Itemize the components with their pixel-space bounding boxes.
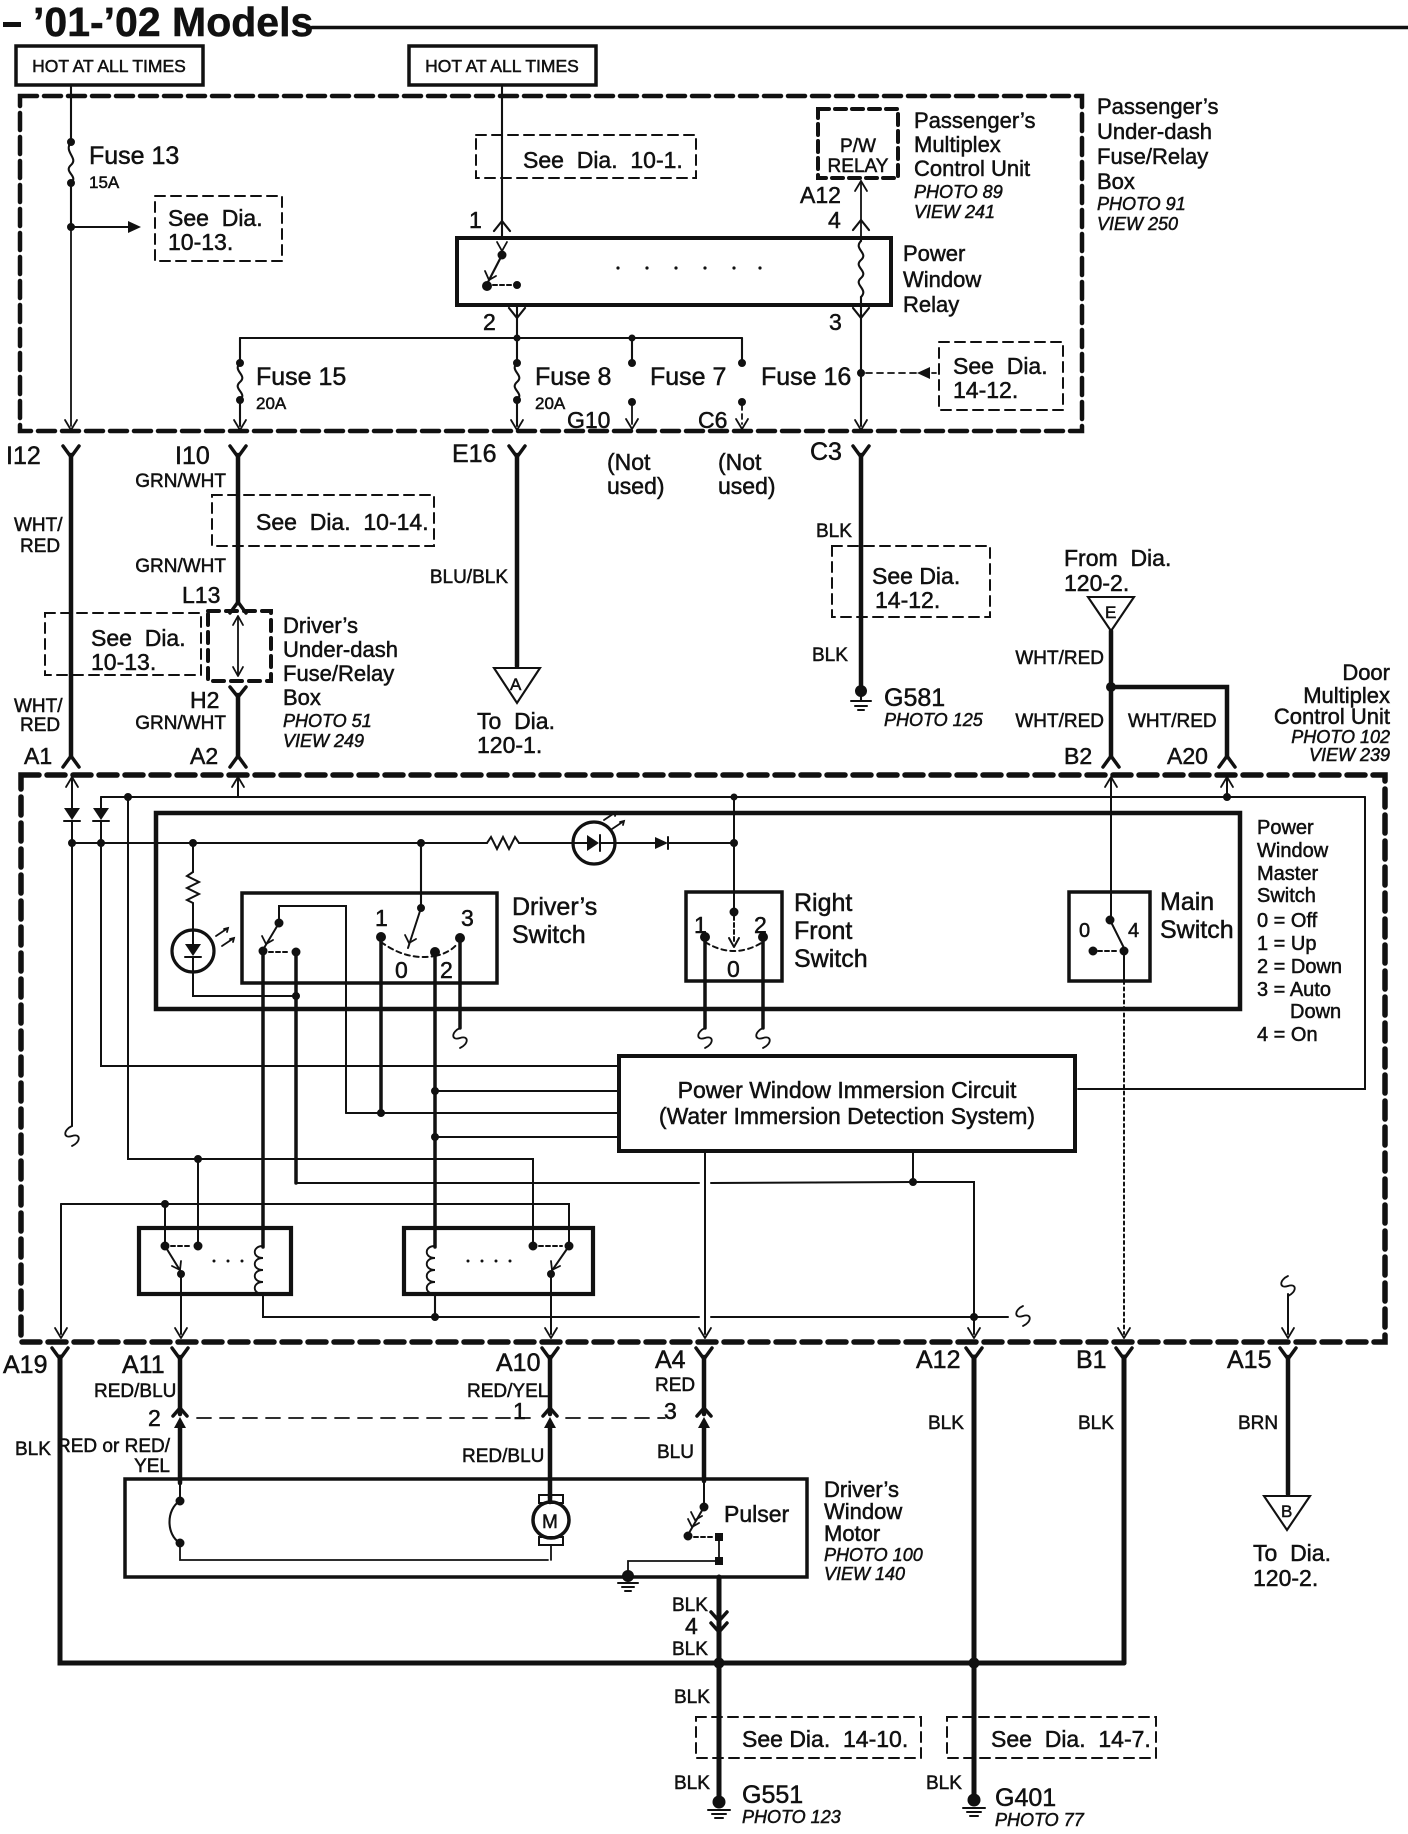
svg-text:Switch: Switch — [1257, 885, 1316, 907]
svg-text:14-12.: 14-12. — [875, 587, 940, 613]
driver's switch arm — [408, 908, 421, 948]
svg-text:Pulser: Pulser — [724, 1501, 790, 1527]
LED2 indicator — [172, 928, 234, 972]
wire relay pin3 down to C3 exit — [860, 305, 862, 426]
circuit breaker — [170, 1497, 549, 1560]
driver's switch box — [242, 893, 497, 983]
label Passenger's Multiplex Control Unit — [914, 108, 1035, 222]
relay contact from pin 1 — [498, 251, 506, 259]
wire break symbol — [65, 1126, 79, 1146]
svg-text:PHOTO 100: PHOTO 100 — [824, 1545, 923, 1565]
node A2 branch — [125, 794, 132, 801]
motor M1 — [533, 1495, 569, 1560]
svg-text:2: 2 — [483, 309, 496, 335]
See Dia. 14-7. box — [947, 1717, 1156, 1758]
wire driver's 3 contact to break — [458, 938, 462, 1028]
wire from HOT box to Fuse 13 — [70, 87, 72, 139]
arrowhead to See Dia 10-13 — [128, 221, 141, 233]
svg-text:BRN: BRN — [1238, 1413, 1278, 1434]
window relay 2 box — [404, 1228, 593, 1294]
right front switch box — [686, 892, 782, 981]
svg-text:M: M — [542, 1512, 558, 1533]
See Dia. 10-13. box (mid) — [45, 613, 201, 675]
wire H2 GRN/WHT to A2 — [236, 695, 241, 757]
label RED or RED/YEL — [57, 1436, 171, 1477]
svg-text:Down: Down — [1290, 1001, 1341, 1023]
driver's switch contacts — [377, 933, 386, 942]
svg-text:1: 1 — [694, 912, 707, 938]
node ground bus A12 — [969, 1658, 979, 1668]
fuse F7 stub — [626, 338, 638, 429]
mechanical link dots — [616, 266, 761, 269]
svg-text:VIEW 140: VIEW 140 — [824, 1564, 905, 1584]
svg-text:3 = Auto: 3 = Auto — [1257, 979, 1331, 1001]
main switch box — [1069, 892, 1150, 981]
svg-text:C3: C3 — [810, 438, 842, 466]
relay2 coil — [427, 1246, 435, 1294]
label Driver's Window Motor — [824, 1477, 923, 1584]
off-page triangle A — [494, 668, 540, 703]
label Driver's Under-dash Fuse/Relay Box — [283, 613, 398, 751]
wire A19 feed down — [60, 1204, 62, 1334]
svg-text:1: 1 — [513, 1398, 526, 1424]
wire A4 to motor box — [702, 1424, 707, 1481]
svg-text:BLK: BLK — [1078, 1413, 1114, 1434]
svg-text:4: 4 — [1128, 920, 1139, 942]
svg-text:WHT/RED: WHT/RED — [1015, 648, 1104, 669]
pin labels right front switch — [694, 912, 767, 982]
svg-text:See Dia.: See Dia. — [91, 625, 186, 651]
See Dia. 14-12. box (top) — [939, 342, 1063, 410]
connector H2 — [230, 687, 246, 697]
dashed selector arc — [381, 942, 435, 957]
relay coil bus — [263, 1294, 1008, 1317]
relay1 link dots — [213, 1260, 244, 1263]
connector 4 inline — [711, 1612, 727, 1632]
wire A19 BLK to ground bus — [60, 1357, 1124, 1663]
svg-text:WHT/: WHT/ — [14, 515, 63, 536]
relay pin2 contact — [514, 282, 521, 289]
HOT AT ALL TIMES box right — [409, 46, 596, 85]
LED supply line — [72, 842, 487, 844]
wire fuse13 node down to I12 exit — [70, 227, 72, 426]
svg-text:Motor: Motor — [824, 1521, 880, 1546]
label (Not used) C6 — [718, 449, 776, 499]
svg-text:See Dia. 14-10.: See Dia. 14-10. — [742, 1726, 908, 1752]
svg-text:I10: I10 — [175, 442, 210, 470]
svg-text:Box: Box — [1097, 169, 1135, 194]
svg-text:BLK: BLK — [928, 1413, 964, 1434]
svg-text:I12: I12 — [6, 442, 41, 470]
svg-text:E16: E16 — [452, 440, 496, 468]
svg-text:RED/BLU: RED/BLU — [94, 1381, 176, 1402]
svg-text:WHT/RED: WHT/RED — [1015, 711, 1104, 732]
resistor R2 vertical — [187, 843, 199, 930]
off-page triangle B — [1264, 1496, 1310, 1530]
label G581 PHOTO 125 — [884, 684, 984, 730]
relay arrow into pin1 contact — [497, 242, 507, 251]
svg-text:Driver’s: Driver’s — [512, 893, 597, 921]
right front switch contacts — [701, 933, 710, 942]
wire to relay1 main contact — [164, 1204, 166, 1246]
label BLK 4 BLK — [672, 1595, 708, 1660]
label Passenger's Under-dash Fuse/Relay Box — [1097, 94, 1218, 234]
label WHT/RED lower — [14, 696, 63, 736]
svg-text:Fuse/Relay: Fuse/Relay — [1097, 144, 1208, 169]
wire G551 BLK — [717, 1663, 722, 1797]
svg-text:PHOTO 77: PHOTO 77 — [995, 1810, 1085, 1830]
svg-text:P/W: P/W — [840, 136, 876, 157]
wire A1 branch down to break — [71, 843, 73, 1126]
svg-text:3: 3 — [664, 1398, 677, 1424]
svg-text:RED: RED — [655, 1375, 695, 1396]
svg-text:GRN/WHT: GRN/WHT — [135, 713, 226, 734]
svg-text:120-2.: 120-2. — [1064, 570, 1129, 596]
svg-text:RED: RED — [20, 536, 60, 557]
svg-text:BLK: BLK — [926, 1773, 962, 1794]
label G551 PHOTO 123 — [742, 1781, 841, 1827]
wire E to B2 WHT/RED — [1109, 631, 1114, 757]
wire main switch down to B1 — [1123, 951, 1125, 981]
wire A4 upper — [702, 1357, 707, 1414]
svg-text:A1: A1 — [24, 743, 52, 769]
svg-text:(Water Immersion Detection Sys: (Water Immersion Detection System) — [659, 1103, 1035, 1129]
svg-text:(Not: (Not — [607, 449, 651, 475]
label immersion circuit — [659, 1077, 1035, 1129]
driver's lock switch arm — [264, 923, 279, 948]
wire A11 upper — [178, 1357, 183, 1414]
label Driver's Switch — [512, 893, 597, 949]
svg-text:C6: C6 — [698, 407, 727, 433]
svg-text:Power Window Immersion Circuit: Power Window Immersion Circuit — [678, 1077, 1017, 1103]
Passenger's under-dash fuse/relay box (dashed) — [20, 96, 1082, 431]
svg-text:Fuse 13: Fuse 13 — [89, 142, 179, 170]
feed line from A2 across top — [101, 796, 1365, 798]
svg-text:PHOTO 125: PHOTO 125 — [884, 710, 984, 730]
svg-text:H2: H2 — [190, 687, 219, 713]
driver's under-dash fuse/relay box (dashed) — [208, 611, 271, 681]
wire A10 upper — [548, 1357, 553, 1414]
svg-text:See Dia.: See Dia. — [953, 353, 1048, 379]
wire A11 to motor box — [178, 1424, 183, 1483]
svg-text:G551: G551 — [742, 1781, 803, 1809]
LED1 indicator — [573, 812, 624, 864]
svg-text:RELAY: RELAY — [828, 156, 889, 177]
right boundary wire down to immersion box — [1078, 797, 1365, 1089]
svg-text:G10: G10 — [567, 407, 610, 433]
relay dashed link to pin 2 — [493, 284, 511, 286]
svg-text:PHOTO 51: PHOTO 51 — [283, 711, 372, 731]
immersion input line 4 — [435, 1136, 619, 1138]
svg-text:Under-dash: Under-dash — [283, 637, 398, 662]
arrow into A2 — [232, 777, 244, 787]
svg-text:120-1.: 120-1. — [477, 732, 542, 758]
svg-text:(Not: (Not — [718, 449, 762, 475]
wire C3 BLK — [859, 455, 864, 685]
fuse bus — [240, 337, 742, 339]
svg-text:A12: A12 — [916, 1346, 960, 1374]
svg-text:RED/YEL: RED/YEL — [467, 1381, 548, 1402]
dashed link — [269, 951, 289, 953]
wire A12 BLK to G401 — [972, 1357, 977, 1795]
dashed wire to See Dia 14-12 arrow — [866, 372, 936, 374]
svg-text:RED or RED/: RED or RED/ — [57, 1436, 171, 1457]
wire pulser BLK down — [717, 1577, 722, 1663]
svg-text:BLK: BLK — [816, 521, 852, 542]
svg-text:A10: A10 — [496, 1349, 540, 1377]
svg-text:From Dia.: From Dia. — [1064, 545, 1171, 571]
svg-text:E: E — [1105, 603, 1116, 622]
See Dia. 10-1. box — [476, 135, 696, 178]
wire A10 to motor — [548, 1424, 553, 1497]
ground G551 — [708, 1796, 730, 1818]
relay1 coil — [255, 1246, 263, 1294]
svg-text:BLU: BLU — [657, 1442, 694, 1463]
ground G581 — [851, 686, 871, 711]
power window relay box — [457, 238, 891, 305]
svg-text:Control Unit: Control Unit — [914, 156, 1030, 181]
wire fuse13 down to node — [70, 183, 72, 227]
svg-text:WHT/RED: WHT/RED — [1128, 711, 1217, 732]
wire B2 down to main switch — [1110, 779, 1112, 919]
connector fork pin 2 — [509, 308, 525, 318]
fuse F13 symbol — [68, 139, 75, 187]
ground inside motor box — [618, 1571, 638, 1592]
svg-text:used): used) — [607, 473, 665, 499]
wire driver's 0 contact down to relay2 coil — [433, 952, 437, 1247]
svg-text:Front: Front — [794, 917, 852, 945]
svg-text:1: 1 — [375, 905, 388, 931]
svg-text:10-13.: 10-13. — [168, 229, 233, 255]
svg-text:BLU/BLK: BLU/BLK — [430, 567, 508, 588]
dashed plunger arrow — [733, 916, 735, 941]
See Dia. 14-10. box — [696, 1717, 921, 1758]
diode D3 — [615, 837, 734, 849]
arrow into B2 — [1105, 777, 1117, 787]
wire A15 BRN — [1286, 1357, 1291, 1494]
resistor R1 horizontal — [487, 837, 519, 849]
svg-text:VIEW 241: VIEW 241 — [914, 202, 995, 222]
relay2 arm — [551, 1246, 569, 1272]
svg-text:PHOTO 123: PHOTO 123 — [742, 1807, 841, 1827]
immersion input line 1 — [101, 843, 619, 1066]
svg-text:0: 0 — [1079, 920, 1090, 942]
svg-text:To Dia.: To Dia. — [477, 708, 555, 734]
wire RFS pin1 down to break — [703, 937, 707, 1028]
svg-text:Passenger’s: Passenger’s — [914, 108, 1035, 133]
wire A1 down — [71, 779, 73, 808]
svg-text:See Dia. 10-1.: See Dia. 10-1. — [523, 147, 683, 173]
wire I10 GRN/WHT upper — [236, 455, 241, 603]
svg-text:HOT AT ALL TIMES: HOT AT ALL TIMES — [32, 56, 186, 76]
svg-text:2: 2 — [148, 1405, 161, 1431]
window up relay feed line — [128, 797, 533, 1246]
wire RFS pin2 down to break — [761, 937, 765, 1028]
ground G401 — [963, 1794, 985, 1816]
wire relay2 arm to A10 — [550, 1274, 552, 1334]
wire driver's 1 contact down — [379, 937, 383, 1113]
svg-text:4: 4 — [828, 207, 841, 233]
svg-text:20A: 20A — [535, 394, 566, 413]
svg-text:Box: Box — [283, 685, 321, 710]
svg-text:BLK: BLK — [15, 1439, 51, 1460]
arrow into A1 — [66, 777, 78, 787]
svg-text:2 = Down: 2 = Down — [1257, 956, 1342, 978]
svg-text:10-13.: 10-13. — [91, 649, 156, 675]
fuse F16 stub (C6) — [736, 338, 748, 429]
svg-text:See Dia.: See Dia. — [872, 563, 960, 589]
svg-text:A11: A11 — [122, 1351, 165, 1379]
svg-text:RED/BLU: RED/BLU — [462, 1446, 544, 1467]
svg-text:1 = Up: 1 = Up — [1257, 933, 1316, 955]
arrowhead down at passenger box bottom (I12) — [65, 420, 77, 430]
svg-text:Control Unit: Control Unit — [1274, 704, 1390, 729]
svg-text:A15: A15 — [1227, 1346, 1271, 1374]
immersion input line 2 — [435, 1090, 619, 1092]
wire branch to A20 — [1111, 687, 1227, 757]
label Power Window Relay — [903, 241, 981, 317]
double arrow inside under-dash box — [233, 616, 243, 676]
svg-text:B1: B1 — [1076, 1346, 1107, 1374]
wire relay pin 4 up to P/W relay box — [860, 181, 862, 236]
relay1 contacts — [161, 1242, 169, 1250]
svg-text:Switch: Switch — [512, 921, 586, 949]
door multiplex control unit box (dashed) — [21, 775, 1385, 1342]
label Fuse 13 15A — [89, 142, 179, 192]
relay armature contact — [483, 282, 492, 291]
svg-text:B: B — [1281, 1502, 1292, 1521]
window down relay feed line — [61, 1204, 569, 1246]
svg-text:RED: RED — [20, 715, 60, 736]
label G401 PHOTO 77 — [995, 1784, 1085, 1830]
main switch contact — [1106, 916, 1114, 924]
svg-text:PHOTO 89: PHOTO 89 — [914, 182, 1003, 202]
relay1 arm — [165, 1246, 181, 1272]
title '01-'02 Models — [3, 0, 1408, 45]
svg-text:Fuse 15: Fuse 15 — [256, 363, 346, 391]
svg-text:A20: A20 — [1167, 743, 1208, 769]
power window master switch assembly box — [156, 813, 1240, 1009]
svg-text:Passenger’s: Passenger’s — [1097, 94, 1218, 119]
svg-text:Window: Window — [1257, 840, 1329, 862]
label Right Front Switch — [794, 889, 868, 973]
svg-text:used): used) — [718, 473, 776, 499]
right front switch pin contact — [730, 908, 738, 916]
svg-text:3: 3 — [829, 309, 842, 335]
wire LED2 to switch wire — [193, 972, 293, 996]
off-page triangle E — [1088, 597, 1134, 631]
label From Dia. 120-2. — [1064, 545, 1171, 596]
svg-text:Driver’s: Driver’s — [283, 613, 358, 638]
svg-text:0: 0 — [727, 956, 740, 982]
inline connector dashed line — [197, 1417, 665, 1419]
dashed arc right front switch — [705, 942, 763, 951]
svg-text:VIEW 239: VIEW 239 — [1309, 745, 1390, 765]
wire branch to See Dia 10-13 arrow — [71, 226, 130, 228]
svg-text:G401: G401 — [995, 1784, 1056, 1812]
pin labels driver's switch — [375, 905, 474, 983]
svg-text:Window: Window — [903, 267, 981, 292]
svg-text:VIEW 249: VIEW 249 — [283, 731, 364, 751]
svg-text:See Dia. 10-14.: See Dia. 10-14. — [256, 509, 429, 535]
wire right front switch feed — [733, 797, 735, 910]
svg-text:A: A — [510, 675, 522, 694]
window relay 1 box — [139, 1228, 291, 1294]
wire relay pin 2 down to bus — [516, 305, 518, 338]
svg-text:B2: B2 — [1064, 743, 1092, 769]
immersion input line 3 — [346, 1112, 619, 1114]
See Dia. 14-12. box (mid) — [832, 546, 990, 617]
svg-text:Fuse/Relay: Fuse/Relay — [283, 661, 394, 686]
pulser switch — [628, 1481, 723, 1572]
svg-text:L13: L13 — [182, 582, 220, 608]
svg-text:Fuse 8: Fuse 8 — [535, 363, 611, 391]
wire A15 break — [1281, 1276, 1295, 1296]
svg-text:BLK: BLK — [674, 1773, 710, 1794]
svg-text:BLK: BLK — [812, 645, 848, 666]
label To Dia. 120-2. — [1253, 1540, 1331, 1591]
svg-text:Master: Master — [1257, 863, 1318, 885]
coil bus break — [1016, 1306, 1030, 1326]
svg-text:Power: Power — [1257, 817, 1314, 839]
relay2 link dots — [467, 1260, 512, 1263]
svg-text:BLK: BLK — [674, 1687, 710, 1708]
svg-text:BLK: BLK — [672, 1639, 708, 1660]
label WHT/RED upper — [14, 515, 63, 557]
svg-text:2: 2 — [754, 912, 767, 938]
svg-text:A4: A4 — [655, 1346, 686, 1374]
driver's window motor box — [125, 1479, 807, 1577]
svg-text:VIEW 250: VIEW 250 — [1097, 214, 1178, 234]
main switch arm — [1110, 920, 1124, 948]
connector A10 inline — [543, 1408, 557, 1416]
svg-text:A12: A12 — [800, 182, 841, 208]
See Dia. 10-13. box (top) — [155, 196, 282, 261]
node A20 join — [1224, 794, 1231, 801]
svg-text:A19: A19 — [3, 1351, 47, 1379]
connector A4 inline — [697, 1408, 711, 1416]
svg-text:Fuse 16: Fuse 16 — [761, 363, 851, 391]
node fuse16 branch — [858, 370, 865, 377]
wire relay1 arm to A11 — [180, 1274, 182, 1334]
wire diode2 feed — [100, 797, 102, 808]
svg-text:See Dia. 14-7.: See Dia. 14-7. — [991, 1726, 1151, 1752]
svg-text:GRN/WHT: GRN/WHT — [135, 556, 226, 577]
svg-text:0: 0 — [395, 957, 408, 983]
pin labels main switch — [1079, 920, 1139, 942]
svg-text:120-2.: 120-2. — [1253, 1565, 1318, 1591]
svg-text:YEL: YEL — [134, 1456, 170, 1477]
link line to immersion — [296, 1182, 913, 1183]
svg-text:Under-dash: Under-dash — [1097, 119, 1212, 144]
fuse F8 — [511, 338, 523, 430]
wire I12 WHT/RED — [69, 455, 74, 757]
svg-text:GRN/WHT: GRN/WHT — [135, 471, 226, 492]
wire HOT2 down to relay pin 1 — [501, 87, 503, 237]
wire lock arm down to relay1 coil — [261, 951, 265, 1247]
svg-text:’01-’02 Models: ’01-’02 Models — [33, 0, 313, 45]
relay coil — [859, 241, 864, 297]
wire immersion out to A12 — [912, 1151, 914, 1182]
connector fork pin 1 — [494, 221, 510, 231]
wire A20 down to feed line — [1226, 779, 1228, 797]
svg-text:Relay: Relay — [903, 292, 959, 317]
label Power Window Master Switch legend — [1257, 817, 1342, 1046]
wire immersion out to A4 — [704, 1151, 706, 1334]
connector A11 inline — [173, 1408, 187, 1416]
See Dia. 10-14. box — [212, 495, 434, 546]
node fuse13 branch — [68, 224, 75, 231]
